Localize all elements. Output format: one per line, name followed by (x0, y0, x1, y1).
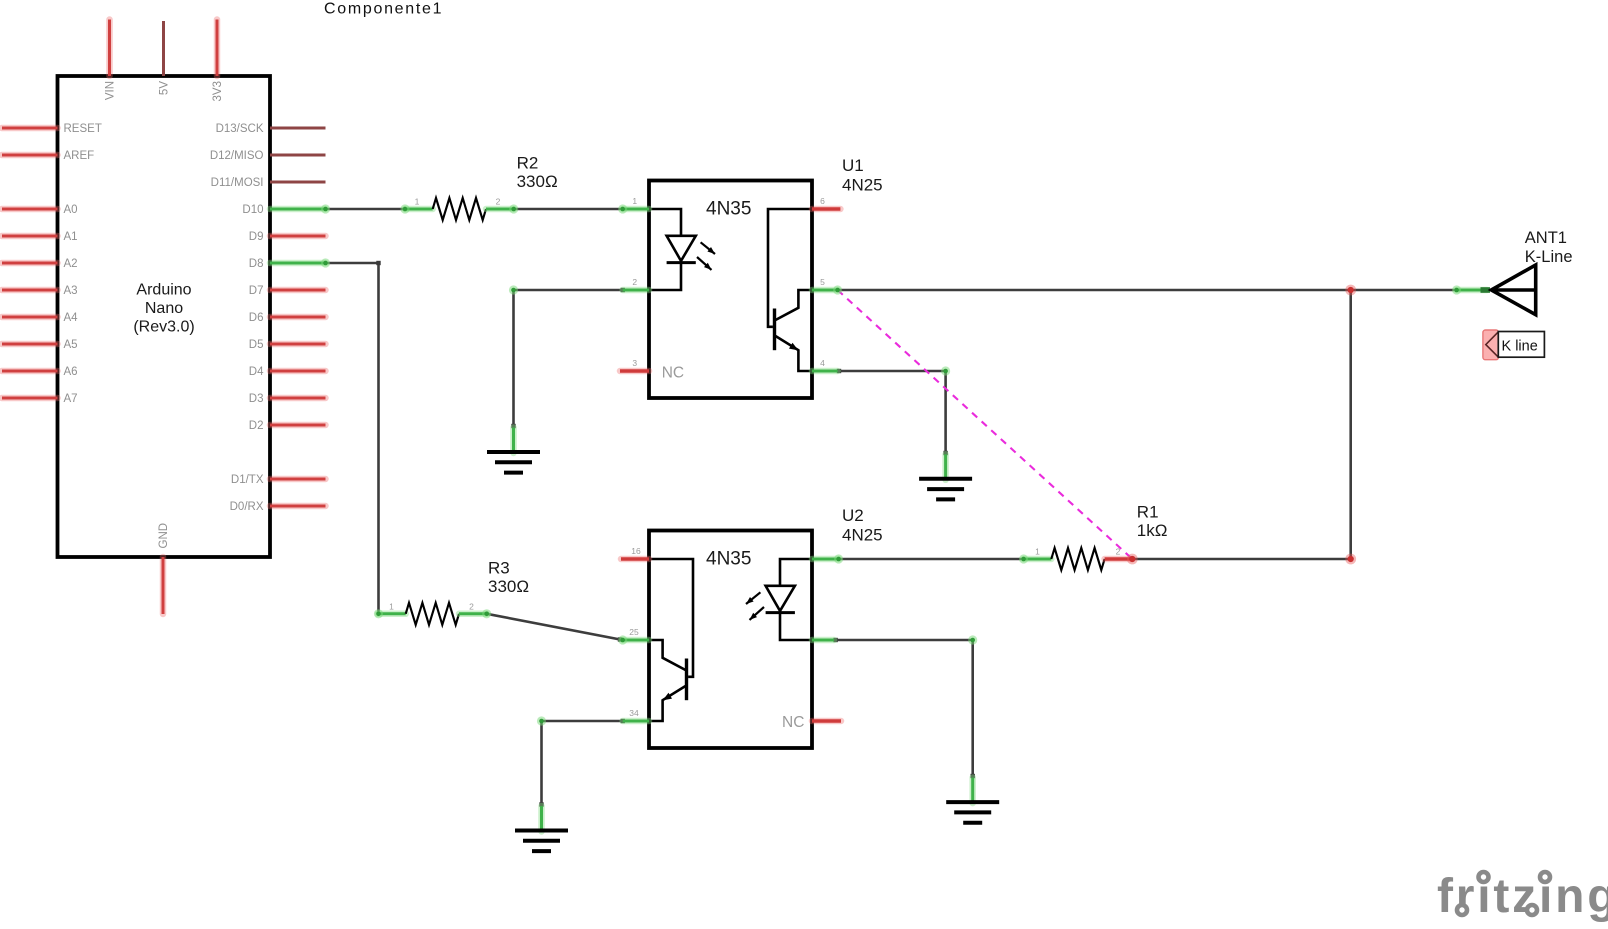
svg-text:NC: NC (662, 365, 684, 382)
svg-text:ANT1: ANT1 (1525, 229, 1567, 247)
antenna ANT1 pin (1457, 287, 1490, 293)
svg-text:34: 34 (629, 708, 639, 718)
svg-text:D4: D4 (249, 366, 264, 378)
svg-text:(Rev3.0): (Rev3.0) (133, 319, 194, 336)
svg-text:D7: D7 (249, 285, 264, 297)
svg-text:2: 2 (496, 197, 501, 207)
wire node vertical K-line (1349, 290, 1352, 559)
pin D7 (249, 285, 326, 297)
ratsnest U1 pin5 to R1 pin2 (838, 290, 1133, 559)
svg-text:U2: U2 (842, 506, 864, 525)
pin D3 (249, 393, 326, 405)
pin A4 (2, 312, 78, 324)
pin D5 (249, 339, 326, 351)
R1 labels (1137, 503, 1168, 541)
svg-text:R3: R3 (488, 559, 510, 578)
R3 labels (488, 559, 529, 597)
junction node R1 pin2 (1127, 554, 1138, 565)
wire U1 pin2 to ground G1 (511, 288, 625, 428)
U1 pin 2 (623, 277, 649, 290)
wire U1 pin5 to ANT1 (K-line net) (838, 289, 1457, 292)
svg-text:GND: GND (158, 523, 170, 549)
svg-text:3V3: 3V3 (212, 81, 224, 101)
pin D4 (249, 366, 326, 378)
pin A7 (2, 393, 78, 405)
svg-text:A1: A1 (64, 231, 78, 243)
pin D0/RX (230, 501, 326, 513)
wire U1 pin4 to ground G2 (837, 369, 948, 455)
svg-text:K line: K line (1502, 339, 1538, 355)
resistor R1 1k (1024, 547, 1133, 571)
wire U2 pin6 to R1 pin1 (839, 558, 1024, 561)
svg-text:NC: NC (782, 714, 804, 731)
U1 pin 4 (812, 358, 838, 371)
pin D2 (249, 420, 326, 432)
pin RESET (2, 123, 102, 135)
pin 3V3 (212, 20, 224, 102)
junction node K-line top (1345, 285, 1356, 296)
pin D1/TX (231, 474, 326, 486)
svg-text:1: 1 (415, 197, 420, 207)
svg-text:1: 1 (389, 602, 394, 612)
svg-text:R1: R1 (1137, 503, 1159, 522)
wire D8 to R3 pin1 (326, 261, 381, 614)
ANT1 labels (1525, 229, 1573, 266)
pin D13/SCK (216, 123, 326, 135)
svg-text:3: 3 (632, 358, 637, 368)
svg-text:K-Line: K-Line (1525, 248, 1573, 266)
connection nodes (green) (321, 204, 1461, 725)
svg-text:1kΩ: 1kΩ (1137, 521, 1168, 540)
net label flag K line (1483, 330, 1545, 360)
pin A0 (2, 204, 78, 216)
Arduino Nano title text (133, 282, 194, 336)
svg-text:5V: 5V (159, 81, 171, 95)
svg-text:A7: A7 (64, 393, 78, 405)
ground G3 (515, 806, 568, 851)
U2 internal phototransistor (649, 559, 693, 721)
svg-text:D5: D5 (249, 339, 264, 351)
pin D8 (249, 258, 326, 270)
U1 reference label (842, 156, 883, 195)
svg-text:A4: A4 (64, 312, 79, 324)
antenna ANT1 symbol (1491, 265, 1535, 315)
U1 pin 1 (623, 196, 649, 209)
wire U2 pin4 to ground G3 (539, 719, 625, 807)
ground G4 (946, 778, 999, 823)
pin VIN (105, 20, 117, 101)
wire R1 pin2 to node (1132, 558, 1350, 561)
U2 pin 34 (623, 708, 649, 721)
svg-text:D2: D2 (249, 420, 264, 432)
U2 pin 25 (623, 627, 649, 640)
pin 5V (159, 21, 171, 95)
U2 label 4N35 (706, 549, 751, 570)
svg-text:Nano: Nano (145, 300, 183, 317)
svg-text:D10: D10 (242, 204, 263, 216)
svg-text:4N35: 4N35 (706, 199, 751, 220)
pin D12/MISO (210, 150, 326, 162)
svg-text:Arduino: Arduino (136, 282, 191, 299)
U1 label 4N35 (706, 199, 751, 220)
pin D11/MOSI (211, 177, 326, 189)
svg-text:4: 4 (820, 358, 825, 368)
svg-text:4N25: 4N25 (842, 526, 883, 545)
svg-text:1: 1 (632, 196, 637, 206)
U2 reference label (842, 506, 883, 545)
svg-text:4N25: 4N25 (842, 176, 883, 195)
svg-text:D6: D6 (249, 312, 264, 324)
svg-text:330Ω: 330Ω (488, 577, 529, 596)
fritzing watermark (1437, 870, 1608, 923)
svg-text:16: 16 (631, 546, 641, 556)
U2 pin 6 right (812, 556, 839, 563)
svg-text:D13/SCK: D13/SCK (216, 123, 264, 135)
IC Arduino Nano body (58, 76, 271, 557)
svg-text:Componente1: Componente1 (324, 1, 443, 18)
svg-text:RESET: RESET (64, 123, 102, 135)
U2 LED emission arrows (746, 592, 764, 620)
optocoupler U2 4N35 body (649, 531, 812, 749)
U2 internal LED (766, 559, 812, 640)
svg-text:5: 5 (820, 277, 825, 287)
pin D9 (249, 231, 326, 243)
svg-text:25: 25 (629, 627, 639, 637)
resistor R3 330 (378, 602, 487, 625)
U1 internal phototransistor (768, 209, 812, 371)
svg-text:6: 6 (820, 196, 825, 206)
schematic title Componente1 (324, 1, 443, 18)
svg-text:A3: A3 (64, 285, 78, 297)
svg-text:2: 2 (469, 602, 474, 612)
svg-text:D9: D9 (249, 231, 264, 243)
ground G2 (919, 454, 972, 499)
svg-text:D1/TX: D1/TX (231, 474, 264, 486)
wire U2 pin5b to ground G4 (833, 638, 975, 778)
svg-text:VIN: VIN (105, 81, 117, 100)
svg-text:A5: A5 (64, 339, 78, 351)
U1 pin 3 NC (620, 358, 684, 382)
svg-text:D0/RX: D0/RX (230, 501, 264, 513)
svg-text:A2: A2 (64, 258, 78, 270)
U2 pin 16 (621, 546, 649, 559)
U2 pin 5 right (812, 637, 834, 644)
pin GND (158, 523, 170, 614)
U1 LED emission arrows (697, 242, 715, 270)
svg-text:D12/MISO: D12/MISO (210, 150, 264, 162)
U2 pin 4 right NC (782, 714, 841, 731)
svg-text:AREF: AREF (64, 150, 95, 162)
svg-text:2: 2 (632, 277, 637, 287)
pin D10 (242, 204, 325, 216)
R2 labels (517, 154, 558, 192)
ground G1 (487, 428, 540, 473)
svg-text:4N35: 4N35 (706, 549, 751, 570)
pin AREF (2, 150, 94, 162)
svg-text:1: 1 (1035, 547, 1040, 557)
U1 pin 6 (812, 196, 840, 209)
svg-text:A0: A0 (64, 204, 78, 216)
optocoupler U1 4N35 body (649, 181, 812, 399)
resistor R2 330 (405, 197, 514, 221)
svg-text:D8: D8 (249, 258, 264, 270)
pin A1 (2, 231, 78, 243)
wire D10 to R2 pin1 (326, 208, 406, 211)
svg-text:2: 2 (1116, 547, 1121, 557)
pin A5 (2, 339, 78, 351)
svg-text:A6: A6 (64, 366, 78, 378)
pin A2 (2, 258, 78, 270)
wire R2 pin2 to U1 pin1 (514, 208, 623, 211)
pin A3 (2, 285, 78, 297)
svg-text:U1: U1 (842, 156, 864, 175)
U1 pin 5 (812, 277, 838, 290)
pin D6 (249, 312, 326, 324)
junction node K-line bottom (1345, 554, 1356, 565)
svg-text:330Ω: 330Ω (517, 172, 558, 191)
svg-text:R2: R2 (517, 154, 539, 173)
wire R3 pin2 to U2 pin5 (487, 614, 623, 642)
svg-text:D3: D3 (249, 393, 264, 405)
pin A6 (2, 366, 78, 378)
svg-text:D11/MOSI: D11/MOSI (211, 177, 264, 189)
U1 internal LED (649, 209, 696, 290)
